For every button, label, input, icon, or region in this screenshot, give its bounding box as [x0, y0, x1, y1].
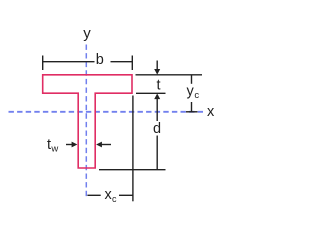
- dimension x_c: line right segment: [119, 194, 133, 196]
- dimension t_w: right-pointing arrow: [66, 144, 73, 146]
- dimension t_w: left-pointing arrow: [100, 144, 111, 146]
- dimension d: bottom extension line (web bottom): [99, 169, 166, 171]
- dimension d: lower line: [156, 136, 158, 170]
- dimension y_c: bottom tick on x axis: [186, 111, 198, 113]
- y centroid axis (dashed blue vertical): [85, 45, 87, 198]
- svg-text:b: b: [96, 52, 104, 68]
- svg-text:t: t: [156, 78, 160, 94]
- svg-text:x: x: [207, 104, 215, 120]
- dimension t: down arrow: [156, 61, 158, 71]
- x centroid axis (dashed blue horizontal): [9, 111, 204, 113]
- dimension y_c: upper line segment: [191, 75, 193, 84]
- dimension b: left tick: [42, 56, 44, 71]
- dimension t: up arrow: [154, 94, 160, 100]
- dimension t: top extension line: [136, 74, 203, 76]
- dimension x_c: extension vertical line: [132, 96, 134, 202]
- svg-text:d: d: [153, 121, 161, 137]
- svg-text:y: y: [83, 25, 91, 42]
- dimension x_c: line left segment: [87, 194, 100, 196]
- dimension b: line left segment: [43, 61, 95, 63]
- dimension d: upper line (from up-arrow): [156, 97, 158, 122]
- dimension b: line right segment: [111, 61, 133, 63]
- dimension t: bottom extension line: [136, 92, 166, 94]
- dimension y_c: lower line segment: [191, 102, 193, 112]
- T-section outline (pink): [43, 75, 132, 168]
- dimension b: right tick: [131, 56, 133, 71]
